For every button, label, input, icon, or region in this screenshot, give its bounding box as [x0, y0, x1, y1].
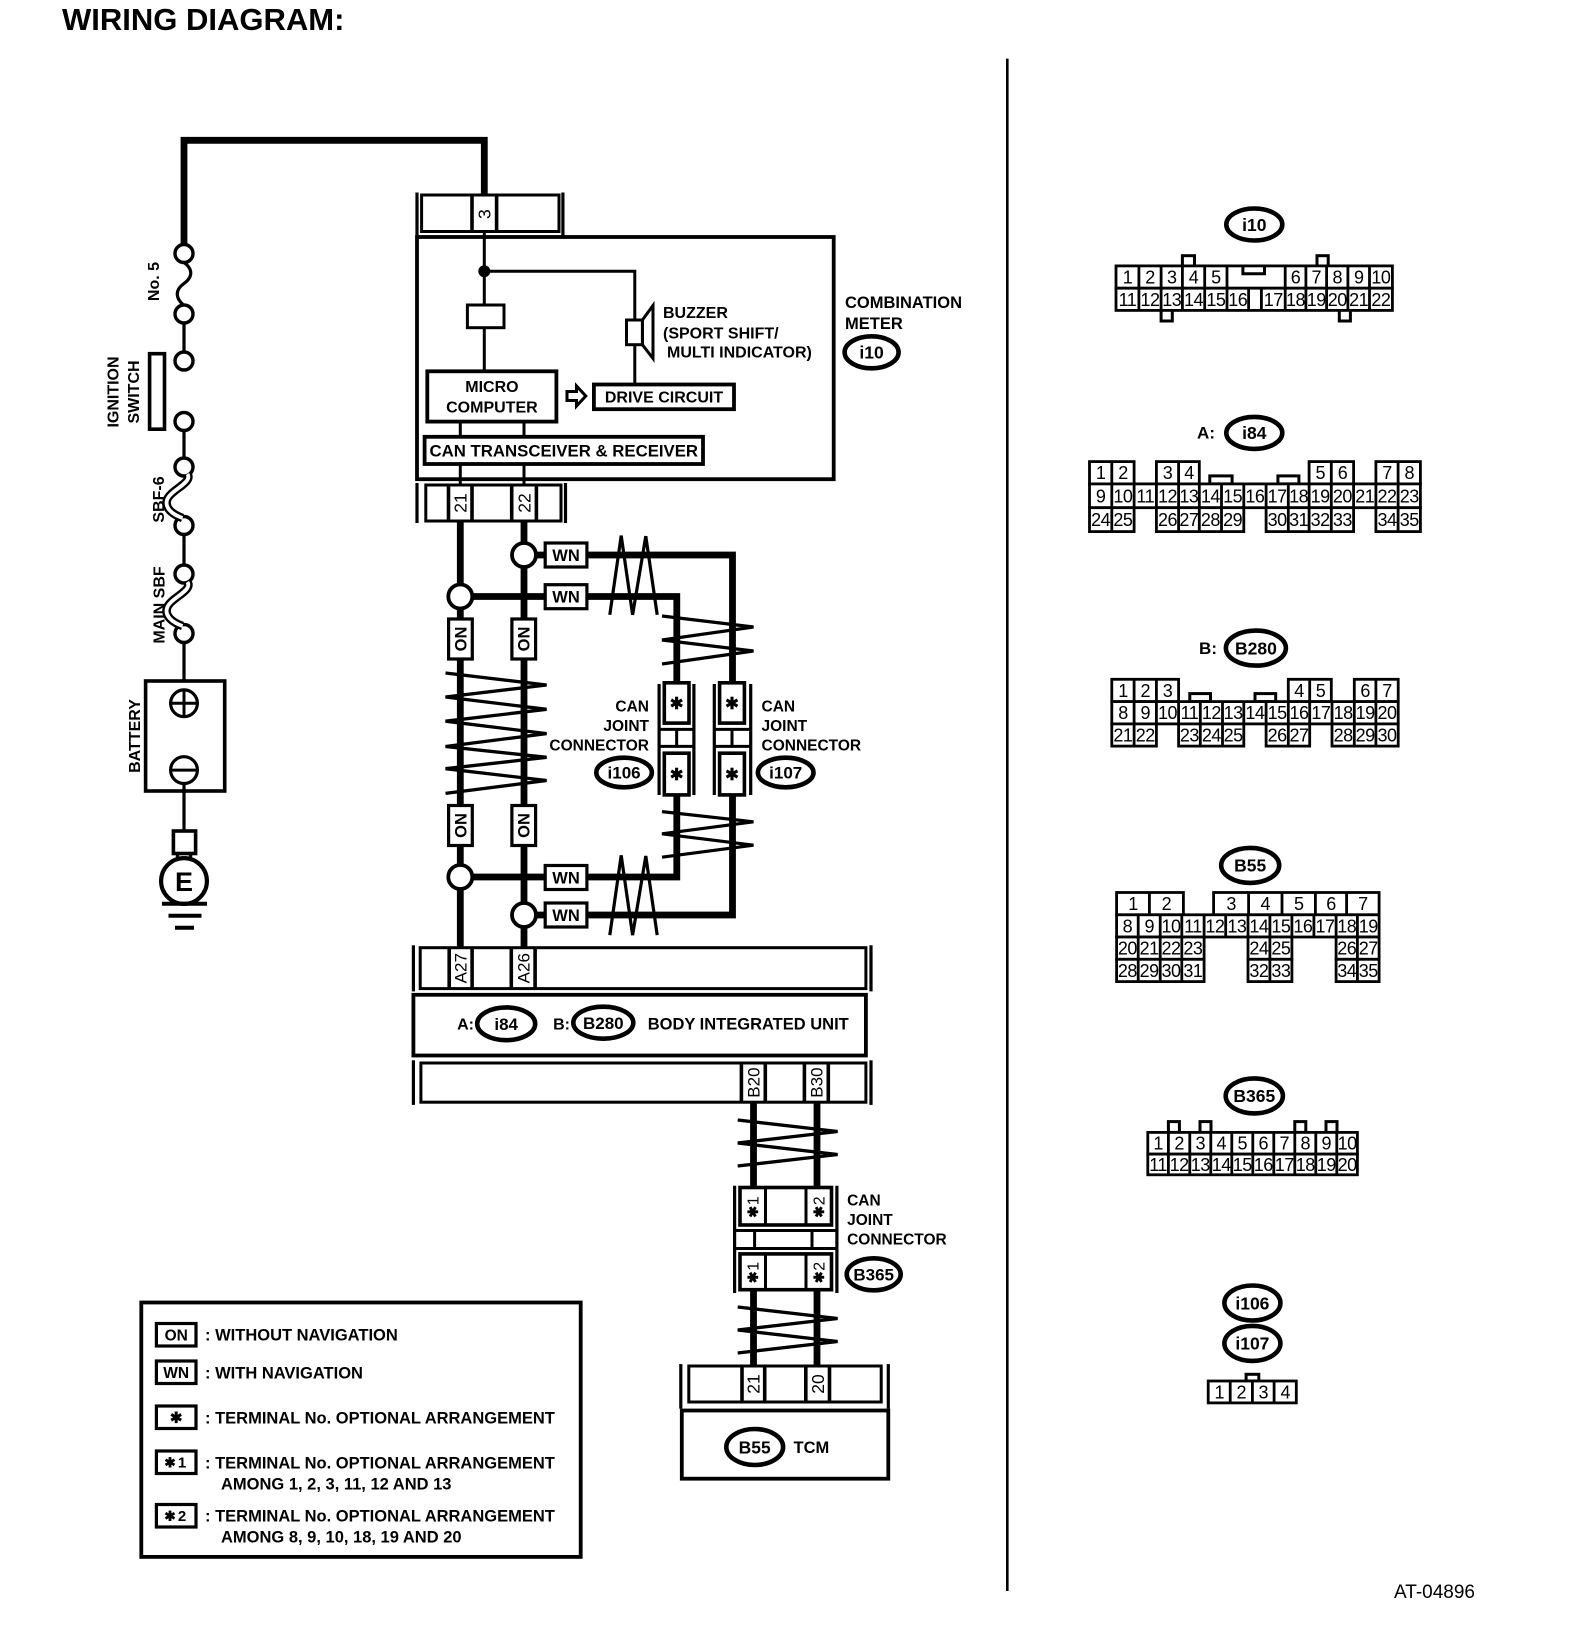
svg-text:2: 2 [1140, 681, 1150, 701]
svg-text:24: 24 [1091, 510, 1111, 530]
svg-text:20: 20 [1333, 486, 1353, 506]
svg-text:31: 31 [1183, 961, 1203, 981]
svg-text:13: 13 [1162, 290, 1182, 310]
svg-text:21: 21 [1140, 939, 1160, 959]
svg-text:SBF-6: SBF-6 [151, 476, 168, 522]
svg-text:21: 21 [744, 1374, 764, 1393]
svg-text:13: 13 [1224, 703, 1244, 723]
svg-text:15: 15 [1223, 486, 1243, 506]
svg-text:9: 9 [1354, 268, 1364, 288]
svg-text:1: 1 [1118, 681, 1128, 701]
svg-text:1: 1 [746, 1196, 763, 1205]
svg-text:20: 20 [1328, 290, 1348, 310]
svg-text:10: 10 [1113, 486, 1133, 506]
svg-text:CONNECTOR: CONNECTOR [549, 738, 649, 755]
svg-text:A26: A26 [514, 953, 533, 983]
svg-text:2: 2 [812, 1196, 829, 1205]
svg-text:1: 1 [1128, 894, 1138, 914]
svg-text:26: 26 [1337, 939, 1357, 959]
svg-text:12: 12 [1140, 290, 1160, 310]
svg-text:14: 14 [1212, 1155, 1232, 1175]
svg-text:: WITHOUT NAVIGATION: : WITHOUT NAVIGATION [205, 1327, 398, 1345]
svg-text:i107: i107 [1235, 1334, 1269, 1354]
svg-text:6: 6 [1338, 463, 1348, 483]
svg-text:27: 27 [1289, 726, 1309, 746]
svg-text:29: 29 [1140, 961, 1160, 981]
svg-text:4: 4 [1294, 681, 1304, 701]
svg-text:SWITCH: SWITCH [126, 360, 143, 423]
svg-text:ON: ON [516, 627, 534, 652]
svg-text:28: 28 [1334, 726, 1354, 746]
svg-text:13: 13 [1179, 486, 1199, 506]
svg-text:7: 7 [1358, 894, 1368, 914]
svg-text:7: 7 [1280, 1134, 1290, 1154]
svg-text:34: 34 [1337, 961, 1357, 981]
svg-text:25: 25 [1271, 939, 1291, 959]
svg-text:JOINT: JOINT [762, 718, 808, 735]
svg-text:20: 20 [808, 1374, 828, 1394]
svg-text:B20: B20 [745, 1067, 764, 1097]
svg-text:AMONG 8, 9, 10, 18, 19 AND 20: AMONG 8, 9, 10, 18, 19 AND 20 [221, 1529, 462, 1547]
svg-text:CONNECTOR: CONNECTOR [762, 738, 862, 755]
svg-text:4: 4 [1189, 268, 1199, 288]
svg-text:B280: B280 [1235, 638, 1277, 658]
svg-text:16: 16 [1228, 290, 1248, 310]
svg-text:3: 3 [475, 209, 495, 219]
svg-text:4: 4 [1261, 894, 1271, 914]
svg-text:15: 15 [1233, 1155, 1253, 1175]
svg-text:15: 15 [1206, 290, 1226, 310]
svg-text:23: 23 [1183, 939, 1203, 959]
svg-text:MAIN SBF: MAIN SBF [151, 566, 168, 644]
svg-text:23: 23 [1180, 726, 1200, 746]
svg-text:: TERMINAL No. OPTIONAL ARRANG: : TERMINAL No. OPTIONAL ARRANGEMENT [205, 1410, 555, 1428]
svg-text:19: 19 [1311, 486, 1331, 506]
svg-text:: TERMINAL No. OPTIONAL ARRANG: : TERMINAL No. OPTIONAL ARRANGEMENT [205, 1508, 555, 1526]
svg-text:2: 2 [812, 1262, 829, 1271]
svg-text:32: 32 [1249, 961, 1269, 981]
svg-text:20: 20 [1378, 703, 1398, 723]
svg-text:29: 29 [1223, 510, 1243, 530]
svg-text:22: 22 [1136, 726, 1156, 746]
svg-text:1: 1 [1153, 1134, 1163, 1154]
svg-text:1: 1 [746, 1262, 763, 1271]
svg-text:IGNITION: IGNITION [105, 356, 122, 427]
svg-text:12: 12 [1205, 916, 1225, 936]
svg-text:30: 30 [1378, 726, 1398, 746]
svg-text:CAN: CAN [615, 699, 649, 716]
svg-text:16: 16 [1293, 916, 1313, 936]
svg-text:COMBINATION: COMBINATION [845, 294, 962, 312]
svg-text:No. 5: No. 5 [146, 262, 163, 301]
svg-text:AT-04896: AT-04896 [1394, 1582, 1475, 1603]
svg-text:13: 13 [1227, 916, 1247, 936]
svg-text:22: 22 [1161, 939, 1181, 959]
svg-text:12: 12 [1202, 703, 1222, 723]
svg-text:WN: WN [552, 588, 580, 606]
svg-text:WN: WN [552, 869, 580, 887]
svg-text:WIRING DIAGRAM:: WIRING DIAGRAM: [62, 2, 344, 37]
svg-text:24: 24 [1249, 939, 1269, 959]
svg-text:9: 9 [1140, 703, 1150, 723]
svg-text:ON: ON [452, 813, 470, 838]
svg-text:18: 18 [1337, 916, 1357, 936]
svg-text:21: 21 [1349, 290, 1369, 310]
svg-text:MULTI INDICATOR): MULTI INDICATOR) [667, 345, 812, 362]
svg-text:1: 1 [1214, 1382, 1224, 1402]
svg-text:21: 21 [1113, 726, 1133, 746]
svg-text:6: 6 [1360, 681, 1370, 701]
svg-text:B30: B30 [808, 1067, 827, 1097]
svg-text:METER: METER [845, 315, 903, 333]
svg-text:19: 19 [1307, 290, 1327, 310]
svg-text:3: 3 [1196, 1134, 1206, 1154]
svg-text:A:: A: [1197, 424, 1215, 443]
svg-text:28: 28 [1118, 961, 1138, 981]
svg-text:B365: B365 [1233, 1086, 1275, 1106]
svg-text:i10: i10 [859, 343, 884, 363]
svg-text:AMONG 1, 2, 3, 11, 12 AND 13: AMONG 1, 2, 3, 11, 12 AND 13 [221, 1476, 451, 1494]
svg-text:18: 18 [1289, 486, 1309, 506]
svg-text:i84: i84 [1242, 423, 1267, 443]
svg-text:5: 5 [1238, 1134, 1248, 1154]
svg-text:16: 16 [1254, 1155, 1274, 1175]
svg-text:3: 3 [1163, 463, 1173, 483]
svg-text:12: 12 [1170, 1155, 1190, 1175]
svg-text:E: E [175, 867, 193, 897]
svg-text:8: 8 [1123, 916, 1133, 936]
svg-text:6: 6 [1326, 894, 1336, 914]
svg-text:JOINT: JOINT [603, 718, 649, 735]
svg-text:1: 1 [178, 1455, 186, 1472]
svg-text:32: 32 [1311, 510, 1331, 530]
svg-text:i84: i84 [494, 1015, 518, 1034]
svg-text:30: 30 [1268, 510, 1288, 530]
svg-text:8: 8 [1301, 1134, 1311, 1154]
svg-text:25: 25 [1113, 510, 1133, 530]
svg-text:CAN TRANSCEIVER & RECEIVER: CAN TRANSCEIVER & RECEIVER [430, 441, 699, 460]
svg-text:4: 4 [1217, 1134, 1227, 1154]
svg-text:21: 21 [1355, 486, 1375, 506]
svg-text:33: 33 [1271, 961, 1291, 981]
svg-text:26: 26 [1268, 726, 1288, 746]
svg-text:i10: i10 [1242, 215, 1267, 235]
svg-text:19: 19 [1359, 916, 1379, 936]
svg-text:WN: WN [163, 1365, 189, 1382]
svg-text:12: 12 [1158, 486, 1178, 506]
svg-text:11: 11 [1136, 486, 1154, 506]
svg-text:27: 27 [1359, 939, 1379, 959]
svg-text:2: 2 [178, 1508, 186, 1525]
svg-text:9: 9 [1144, 916, 1154, 936]
svg-text:5: 5 [1211, 268, 1221, 288]
svg-text:14: 14 [1245, 703, 1265, 723]
svg-text:14: 14 [1184, 290, 1204, 310]
svg-text:2: 2 [1145, 268, 1155, 288]
svg-text:10: 10 [1161, 916, 1181, 936]
svg-text:5: 5 [1294, 894, 1304, 914]
svg-text:13: 13 [1191, 1155, 1211, 1175]
svg-text:19: 19 [1317, 1155, 1337, 1175]
svg-text:WN: WN [552, 547, 580, 565]
svg-text:27: 27 [1179, 510, 1199, 530]
svg-text:8: 8 [1332, 268, 1342, 288]
svg-text:14: 14 [1201, 486, 1221, 506]
svg-text:BATTERY: BATTERY [127, 699, 144, 773]
svg-text:19: 19 [1356, 703, 1376, 723]
svg-text:21: 21 [451, 493, 471, 512]
svg-text:17: 17 [1268, 486, 1288, 506]
svg-text:1: 1 [1123, 268, 1133, 288]
svg-text:18: 18 [1334, 703, 1354, 723]
svg-text:ON: ON [452, 627, 470, 652]
svg-text:11: 11 [1119, 290, 1137, 310]
svg-text:35: 35 [1359, 961, 1379, 981]
svg-text:2: 2 [1162, 894, 1172, 914]
svg-text:MICRO: MICRO [465, 379, 518, 396]
svg-text:20: 20 [1118, 939, 1138, 959]
svg-text:20: 20 [1338, 1155, 1358, 1175]
svg-text:BUZZER: BUZZER [663, 305, 728, 322]
svg-text:16: 16 [1289, 703, 1309, 723]
svg-text:16: 16 [1245, 486, 1265, 506]
svg-text:17: 17 [1275, 1155, 1295, 1175]
svg-text:CAN: CAN [847, 1193, 881, 1210]
svg-text:6: 6 [1259, 1134, 1269, 1154]
svg-text:(SPORT SHIFT/: (SPORT SHIFT/ [663, 326, 779, 343]
svg-text:11: 11 [1181, 703, 1199, 723]
svg-text:9: 9 [1322, 1134, 1332, 1154]
svg-text:A27: A27 [452, 953, 471, 983]
svg-text:B:: B: [553, 1017, 570, 1034]
svg-text:24: 24 [1202, 726, 1222, 746]
svg-text:DRIVE CIRCUIT: DRIVE CIRCUIT [605, 390, 723, 407]
svg-text:3: 3 [1226, 894, 1236, 914]
svg-text:ON: ON [516, 813, 534, 838]
svg-text:28: 28 [1201, 510, 1221, 530]
svg-text:35: 35 [1400, 510, 1420, 530]
svg-text:: TERMINAL No. OPTIONAL ARRANG: : TERMINAL No. OPTIONAL ARRANGEMENT [205, 1455, 555, 1473]
svg-text:11: 11 [1184, 916, 1202, 936]
svg-text:11: 11 [1149, 1155, 1167, 1175]
svg-text:18: 18 [1286, 290, 1306, 310]
svg-text:10: 10 [1158, 703, 1178, 723]
svg-text:33: 33 [1333, 510, 1353, 530]
svg-text:8: 8 [1118, 703, 1128, 723]
svg-text:22: 22 [1377, 486, 1397, 506]
svg-text:7: 7 [1382, 681, 1392, 701]
svg-text:17: 17 [1315, 916, 1335, 936]
svg-text:6: 6 [1291, 268, 1301, 288]
svg-text:TCM: TCM [794, 1439, 830, 1457]
svg-text:i107: i107 [769, 764, 802, 783]
svg-text:B55: B55 [739, 1437, 771, 1457]
svg-text:29: 29 [1356, 726, 1376, 746]
svg-text:34: 34 [1377, 510, 1397, 530]
svg-text:: WITH NAVIGATION: : WITH NAVIGATION [205, 1365, 363, 1383]
svg-text:3: 3 [1167, 268, 1177, 288]
svg-text:22: 22 [1371, 290, 1391, 310]
svg-text:1: 1 [1096, 463, 1106, 483]
svg-text:17: 17 [1264, 290, 1284, 310]
svg-text:10: 10 [1338, 1134, 1358, 1154]
svg-text:5: 5 [1315, 463, 1325, 483]
svg-text:10: 10 [1371, 268, 1391, 288]
svg-text:2: 2 [1237, 1382, 1247, 1402]
svg-text:8: 8 [1404, 463, 1414, 483]
svg-text:9: 9 [1096, 486, 1106, 506]
svg-text:3: 3 [1258, 1382, 1268, 1402]
svg-text:30: 30 [1161, 961, 1181, 981]
svg-text:22: 22 [514, 493, 534, 512]
svg-text:14: 14 [1249, 916, 1269, 936]
svg-text:CAN: CAN [762, 699, 796, 716]
svg-text:2: 2 [1174, 1134, 1184, 1154]
svg-text:B365: B365 [853, 1265, 894, 1284]
svg-text:4: 4 [1184, 463, 1194, 483]
svg-text:26: 26 [1158, 510, 1178, 530]
svg-text:COMPUTER: COMPUTER [446, 399, 538, 416]
svg-text:31: 31 [1289, 510, 1309, 530]
svg-text:B280: B280 [583, 1014, 624, 1033]
svg-text:B:: B: [1199, 639, 1217, 658]
svg-text:7: 7 [1311, 268, 1321, 288]
svg-text:3: 3 [1163, 681, 1173, 701]
svg-text:7: 7 [1382, 463, 1392, 483]
svg-text:A:: A: [457, 1017, 474, 1034]
svg-text:17: 17 [1311, 703, 1331, 723]
svg-text:15: 15 [1268, 703, 1288, 723]
svg-text:B55: B55 [1234, 856, 1266, 876]
svg-text:i106: i106 [1235, 1293, 1269, 1313]
svg-text:BODY INTEGRATED UNIT: BODY INTEGRATED UNIT [648, 1016, 849, 1034]
svg-text:ON: ON [165, 1327, 188, 1344]
svg-text:18: 18 [1296, 1155, 1316, 1175]
svg-text:15: 15 [1271, 916, 1291, 936]
svg-text:CONNECTOR: CONNECTOR [847, 1232, 947, 1249]
svg-text:WN: WN [552, 907, 580, 925]
svg-text:23: 23 [1400, 486, 1420, 506]
svg-text:2: 2 [1118, 463, 1128, 483]
svg-text:4: 4 [1280, 1382, 1290, 1402]
svg-text:25: 25 [1224, 726, 1244, 746]
svg-text:i106: i106 [608, 764, 641, 783]
svg-text:JOINT: JOINT [847, 1212, 893, 1229]
svg-text:5: 5 [1316, 681, 1326, 701]
